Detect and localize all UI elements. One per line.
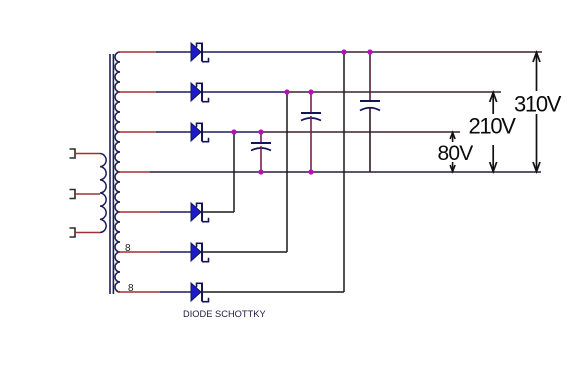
measurement arrow 310V: [533, 52, 540, 172]
wire: secondary tap 3 to diode D3: [156, 131, 191, 133]
junction dot: riser D5 / 210V rail: [284, 89, 289, 94]
svg-text:8: 8: [125, 243, 131, 254]
wire: primary lead 1: [75, 153, 100, 155]
junction dot: riser D6 / 310V rail: [341, 49, 346, 54]
wire: riser D4 to 80V rail: [233, 132, 235, 212]
measurement arrow 210V: [490, 92, 497, 172]
primary terminal J3 (pin 3): [70, 228, 76, 237]
wire: 210V rail (navy segment): [203, 91, 287, 93]
diode D4 (schottky): [191, 203, 209, 222]
wire: riser D5 to 210V rail: [286, 92, 288, 252]
junction dot: C2 / common rail: [308, 169, 313, 174]
diode D5 (schottky): [191, 243, 209, 262]
wire: secondary tap 1 to diode D1: [156, 51, 191, 53]
capacitor C1: [251, 132, 271, 172]
wire: secondary tap 3 red: [118, 131, 156, 133]
wire: D6 cathode to riser: [203, 291, 344, 293]
svg-text:310V: 310V: [514, 92, 562, 117]
diode D2 (schottky): [191, 83, 209, 102]
wire: secondary tap 2 red: [118, 91, 156, 93]
junction dot: riser D4 / 80V rail: [231, 129, 236, 134]
wire: secondary tap 5 to diode D5: [160, 251, 191, 253]
svg-text:8: 8: [128, 283, 134, 294]
transformer T1 primary winding: [100, 154, 106, 233]
primary terminal J2 (pin 3): [70, 190, 76, 199]
wire: secondary center tap (common) red: [118, 171, 150, 173]
wire: D4 cathode to riser: [203, 211, 234, 213]
transformer T1 secondary winding: [115, 52, 120, 292]
junction dot: C1 / 80V rail: [258, 129, 263, 134]
transformer T1 core: [110, 54, 113, 294]
wire: 80V rail (right segment): [261, 131, 460, 133]
wire: secondary tap 2 to diode D2: [156, 91, 191, 93]
junction dot: C2 / 210V rail: [308, 89, 313, 94]
wire: 210V rail (right segment): [287, 91, 501, 93]
label 310V: [512, 91, 562, 117]
capacitor C2: [301, 92, 321, 172]
primary terminal J1 (pin 3): [70, 149, 76, 158]
wire: 80V rail (navy segment): [203, 131, 261, 133]
wire: riser D6 to 310V rail: [343, 52, 345, 292]
wire: secondary tap 4 red: [118, 211, 160, 213]
svg-text:80V: 80V: [438, 142, 474, 165]
svg-text:DIODE SCHOTTKY: DIODE SCHOTTKY: [183, 309, 266, 319]
junction dot: C3 / 310V rail: [367, 49, 372, 54]
wire: 310V rail (navy segment): [203, 51, 344, 53]
wire: common rail: [150, 171, 541, 173]
diode D3 (schottky): [191, 123, 209, 142]
diode D1 (schottky): [191, 43, 209, 62]
wire: secondary tap 5 red: [118, 251, 160, 253]
measurement arrow 80V: [450, 132, 455, 172]
wire: secondary tap 6 red: [118, 291, 160, 293]
wire: secondary tap 4 to diode D4: [160, 211, 191, 213]
svg-text:210V: 210V: [469, 114, 517, 139]
wire: secondary tap 6 to diode D6: [160, 291, 191, 293]
wire: secondary tap 1 red: [118, 51, 156, 53]
diode D6 (schottky): [191, 283, 209, 302]
label 210V: [467, 114, 517, 146]
junction dot: C1 / common rail: [258, 169, 263, 174]
capacitor C3: [360, 52, 380, 172]
wire: 310V rail (right segment): [344, 51, 542, 53]
wire: D5 cathode to riser: [203, 251, 287, 253]
label 80V: [436, 142, 474, 165]
wire: primary lead 2: [75, 193, 100, 195]
wire: primary lead 3: [75, 232, 100, 234]
